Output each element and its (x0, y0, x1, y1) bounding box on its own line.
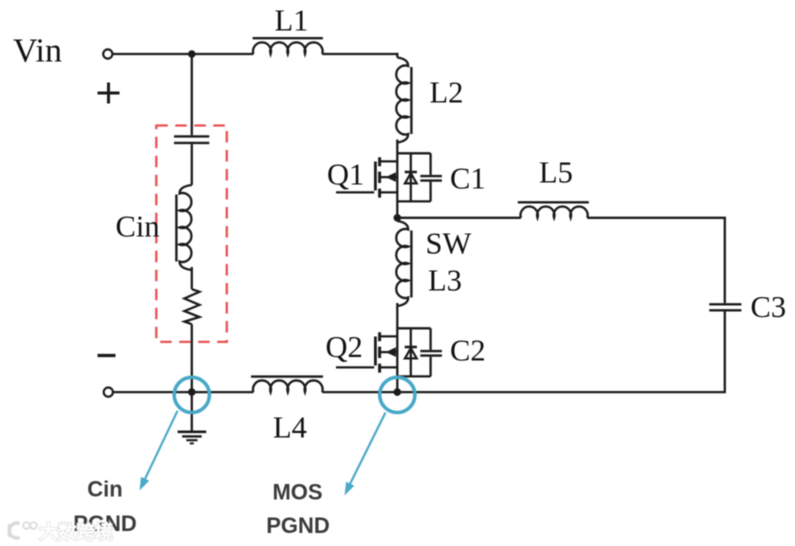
inductor L5 (521, 206, 588, 217)
wire top rail left (113, 53, 254, 55)
wire top rail right of L1 (322, 53, 398, 55)
svg-text:Vin: Vin (13, 33, 62, 70)
transistor Q2 channel segments (378, 332, 381, 372)
svg-text:L5: L5 (539, 156, 573, 190)
transistor Q2 drain lead (381, 335, 398, 337)
transistor Q1 gate lead (336, 191, 374, 193)
wire Q1 block top rail (397, 152, 430, 154)
capacitor C1 wire bottom (429, 182, 431, 202)
svg-text:L2: L2 (430, 76, 464, 110)
transistor Q1 body lead (381, 176, 398, 178)
plus sign (98, 83, 120, 104)
inductor L4 core bar (251, 375, 323, 377)
svg-text:C1: C1 (450, 162, 486, 196)
wire L3 to Q2 and to bottom rail (396, 303, 398, 392)
svg-text:大数跨境: 大数跨境 (39, 521, 114, 544)
wire Cin cap to coil (191, 144, 193, 185)
node junction MOS source at bottom rail (394, 388, 402, 396)
transistor Q1 gate bar (374, 162, 377, 191)
diode D1 wire (410, 153, 412, 201)
transistor Q1 drain lead (381, 160, 398, 162)
capacitor C1 wire top (429, 153, 431, 175)
arrow callout to Cin PGND (140, 411, 386, 496)
wire Q2 block top rail (397, 327, 430, 329)
svg-text:Q2: Q2 (326, 330, 363, 364)
wire Q2 block bottom rail (397, 375, 430, 377)
svg-text:C3: C3 (751, 290, 787, 324)
transistor Q2 gate lead (336, 366, 374, 368)
capacitor C3 plates (709, 304, 741, 310)
diode D1 cathode bar (405, 171, 417, 174)
capacitor C2 plates (420, 351, 442, 356)
svg-text:SW: SW (426, 227, 472, 261)
wire bottom rail left (113, 391, 254, 393)
svg-text:L3: L3 (428, 264, 462, 298)
diode D2 triangle (405, 348, 417, 358)
wire Cin branch upper (191, 54, 193, 135)
svg-text:L1: L1 (275, 4, 309, 38)
wire main vertical into L2 (396, 53, 398, 58)
capacitor C1 plates (420, 176, 442, 181)
diode D1 triangle (405, 173, 417, 183)
inductor L3 (396, 221, 408, 306)
svg-text:Cin: Cin (87, 477, 122, 502)
inductor L3 core bar (410, 231, 412, 298)
terminal Vin plus (103, 49, 112, 58)
node SW dot (394, 214, 402, 222)
svg-text:MOS: MOS (272, 480, 322, 505)
terminal Vin minus (104, 388, 113, 397)
svg-text:Cin: Cin (116, 210, 160, 244)
inductor L4 (253, 380, 323, 392)
transistor Q1 body arrow (386, 172, 396, 182)
inductor L1 core bar (253, 37, 323, 39)
transistor Q2 gate bar (374, 337, 377, 366)
inductor L2 core bar (410, 67, 412, 134)
node junction Cin at bottom rail (188, 388, 196, 396)
node junction top of Cin branch (188, 50, 196, 58)
capacitor C2 wire top (429, 328, 431, 350)
diode D2 cathode bar (405, 346, 417, 349)
transistor Q2 body lead (381, 351, 398, 353)
svg-text:Q1: Q1 (327, 158, 364, 192)
wire Q1 block bottom rail (397, 200, 430, 202)
capacitor C2 wire bottom (429, 357, 431, 377)
wire SW to L5 (397, 217, 521, 219)
capacitor Cin plates (174, 136, 209, 143)
inductor Cin ESL core bar (175, 195, 177, 262)
diode D2 wire (410, 328, 412, 376)
red dashed highlight box around Cin model (156, 126, 227, 342)
svg-text:C2: C2 (450, 334, 486, 368)
svg-text:PGND: PGND (266, 513, 330, 538)
inductor L2 (396, 58, 408, 143)
transistor Q2 body arrow (386, 347, 396, 357)
transistor Q1 channel segments (378, 157, 381, 197)
inductor L1 (253, 42, 323, 54)
blue circle highlight Cin PGND node (174, 377, 209, 412)
resistor Cin ESR zigzag (184, 289, 199, 324)
wire C3 to bottom right corner (322, 312, 725, 393)
transistor Q1 source lead (381, 191, 398, 193)
transistor Q2 source lead (381, 366, 398, 368)
inductor L5 core bar (518, 201, 589, 203)
inductor Cin ESL coil (180, 185, 192, 270)
blue circle highlight MOS PGND node (380, 377, 415, 412)
ground symbol (178, 430, 207, 433)
wire Cin coil to resistor (191, 267, 193, 289)
minus sign (98, 354, 116, 357)
wire L5 to right rail (587, 218, 725, 303)
watermark (9, 521, 114, 544)
wire resistor to bottom rail and ground stem (191, 324, 193, 431)
svg-text:L4: L4 (273, 411, 307, 445)
arrow callout to MOS PGND (350, 413, 386, 485)
wire L2 to Q1 and through to SW (396, 140, 398, 222)
